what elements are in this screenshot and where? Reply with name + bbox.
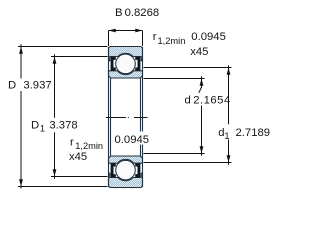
inner ring top section (109, 71, 143, 78)
label D1 3.378 (29, 118, 81, 134)
cage bracket top-right (135, 57, 140, 71)
svg-text:d: d (185, 94, 191, 106)
svg-text:1,2min: 1,2min (158, 36, 186, 46)
cage bracket bottom-left (111, 163, 116, 177)
svg-text:1: 1 (224, 131, 229, 141)
svg-text:x45: x45 (190, 46, 208, 58)
svg-text:2.7189: 2.7189 (236, 127, 271, 139)
side silhouette line right (142, 47, 144, 187)
svg-text:3.937: 3.937 (23, 79, 51, 91)
label d 2.1654 (183, 93, 242, 107)
inner ring bottom section (109, 156, 143, 163)
outer ring top section (109, 47, 143, 61)
dimension D1: line and extension lines (51, 54, 108, 178)
svg-text:D: D (31, 119, 39, 131)
dimension d: line and extension lines (144, 76, 205, 155)
svg-text:0.0945: 0.0945 (115, 134, 150, 146)
cage bracket bottom-right (135, 163, 140, 177)
label d1 2.7189 (217, 124, 273, 141)
label B 0.8268 (115, 7, 159, 19)
svg-text:r: r (153, 31, 157, 43)
svg-text:x45: x45 (69, 151, 87, 163)
bore chamfer line right (140, 78, 142, 155)
svg-text:D: D (8, 79, 16, 91)
bearing bottom half (mirror of top) (109, 156, 143, 188)
bore chamfer line left (110, 78, 112, 155)
label r12min 0.0945 x45 (top) (153, 31, 226, 58)
centerline (106, 117, 148, 119)
svg-text:3.378: 3.378 (49, 119, 77, 131)
svg-text:1,2min: 1,2min (75, 141, 103, 151)
side silhouette line left (108, 47, 110, 187)
label D 3.937 (6, 79, 54, 92)
label r12min 0.0945 x45 (bottom) (69, 132, 151, 164)
ball top (116, 54, 136, 74)
svg-text:0.8268: 0.8268 (125, 7, 160, 19)
ball bottom (116, 160, 136, 180)
bearing top half (109, 47, 143, 79)
svg-text:B: B (115, 7, 123, 19)
svg-text:r: r (70, 137, 74, 149)
dimension B: line and extension lines (109, 29, 143, 46)
svg-text:2.1654: 2.1654 (193, 94, 231, 106)
cage bracket top-left (111, 57, 116, 71)
dimension D: line and extension lines (18, 44, 108, 188)
svg-text:1: 1 (40, 123, 45, 133)
dimension d1: line and extension lines (144, 65, 232, 164)
svg-text:0.0945: 0.0945 (191, 31, 226, 43)
outer ring bottom section (109, 173, 143, 187)
